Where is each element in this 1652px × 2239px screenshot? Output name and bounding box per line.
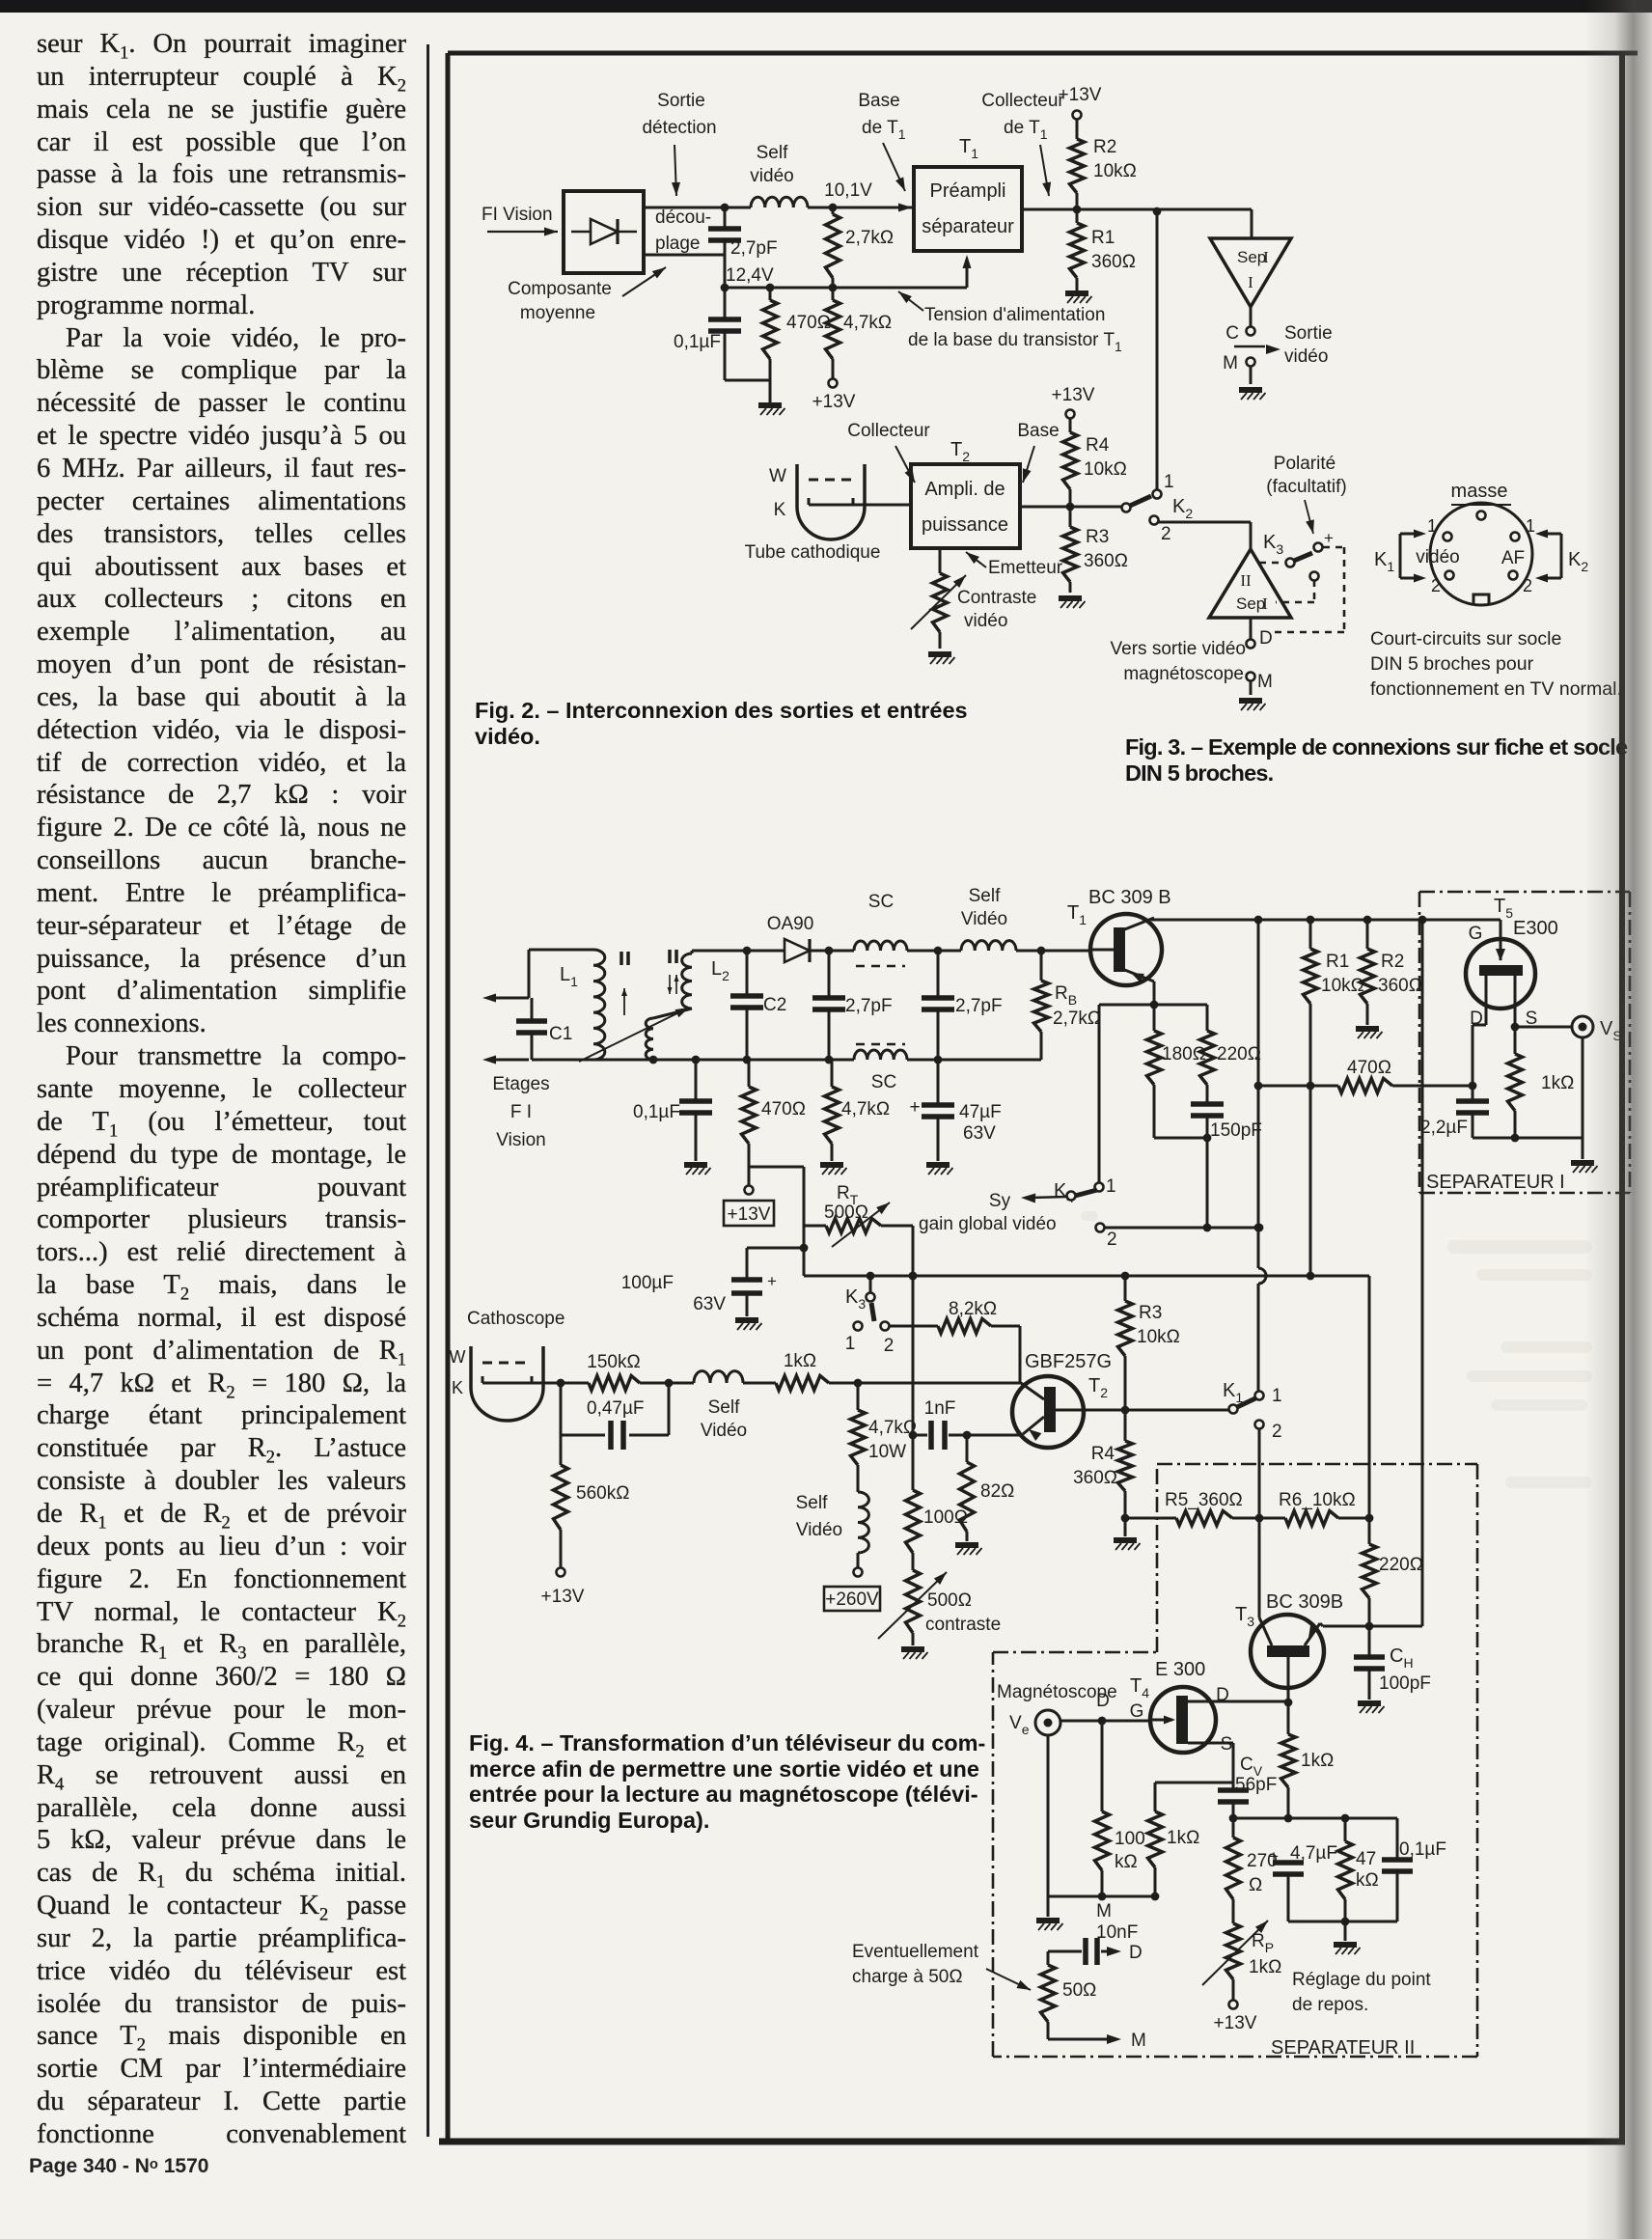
- svg-text:vidéo: vidéo: [1284, 346, 1328, 367]
- svg-text:T5: T5: [1494, 896, 1513, 921]
- svg-text:100: 100: [1115, 1829, 1145, 1849]
- svg-text:M: M: [1096, 1901, 1112, 1921]
- svg-text:D: D: [1216, 1685, 1229, 1705]
- svg-text:de T1: de T1: [1004, 118, 1048, 142]
- svg-text:CH: CH: [1390, 1645, 1414, 1671]
- svg-text:1nF: 1nF: [924, 1398, 956, 1419]
- svg-text:0,1µF: 0,1µF: [633, 1102, 680, 1122]
- svg-text:Ω: Ω: [1249, 1875, 1262, 1895]
- svg-text:M: M: [1131, 2031, 1146, 2051]
- svg-text:2: 2: [1107, 1230, 1117, 1250]
- svg-text:0,1µF: 0,1µF: [674, 332, 721, 352]
- svg-text:2,7kΩ: 2,7kΩ: [845, 228, 894, 248]
- svg-text:1: 1: [1106, 1176, 1116, 1197]
- svg-text:1kΩ: 1kΩ: [1167, 1828, 1199, 1848]
- svg-text:50Ω: 50Ω: [1062, 1980, 1096, 2001]
- svg-text:82Ω: 82Ω: [980, 1481, 1014, 1502]
- svg-text:S: S: [1221, 1734, 1233, 1755]
- svg-text:Sy: Sy: [989, 1191, 1011, 1211]
- svg-text:I: I: [1263, 248, 1269, 266]
- svg-text:SC: SC: [871, 1072, 896, 1092]
- svg-text:Sep: Sep: [1237, 248, 1266, 266]
- svg-text:1: 1: [845, 1334, 856, 1354]
- svg-text:L2: L2: [711, 958, 730, 983]
- svg-text:I: I: [1248, 273, 1253, 291]
- svg-text:de repos.: de repos.: [1292, 1995, 1368, 2015]
- svg-text:Base: Base: [1017, 421, 1059, 441]
- svg-text:K3: K3: [845, 1286, 866, 1312]
- svg-text:180Ω: 180Ω: [1162, 1044, 1206, 1064]
- svg-text:1: 1: [1526, 516, 1535, 536]
- svg-text:1kΩ: 1kΩ: [1541, 1073, 1574, 1093]
- svg-text:500Ω: 500Ω: [824, 1202, 868, 1223]
- svg-text:BC 309 B: BC 309 B: [1088, 887, 1171, 908]
- svg-text:T2: T2: [950, 439, 970, 464]
- svg-text:Self: Self: [708, 1397, 740, 1418]
- svg-text:150pF: 150pF: [1210, 1120, 1262, 1141]
- svg-text:8,2kΩ: 8,2kΩ: [949, 1299, 997, 1319]
- svg-text:Collecteur: Collecteur: [981, 91, 1064, 111]
- svg-text:Ampli. de: Ampli. de: [924, 479, 1005, 500]
- svg-text:10kΩ: 10kΩ: [1093, 161, 1137, 181]
- svg-text:D: D: [1129, 1943, 1143, 1963]
- svg-text:L1: L1: [560, 964, 578, 989]
- svg-text:K2: K2: [1172, 496, 1193, 521]
- svg-text:10nF: 10nF: [1096, 1922, 1138, 1943]
- svg-text:séparateur: séparateur: [922, 216, 1014, 237]
- svg-text:détection: détection: [642, 118, 716, 138]
- svg-text:C: C: [1225, 323, 1239, 344]
- svg-text:1kΩ: 1kΩ: [1249, 1957, 1281, 1977]
- svg-text:FI Vision: FI Vision: [482, 205, 553, 225]
- svg-text:R1: R1: [1326, 952, 1349, 972]
- svg-text:2: 2: [1523, 576, 1532, 595]
- svg-text:Self: Self: [757, 143, 788, 163]
- svg-text:0,1µF: 0,1µF: [1399, 1839, 1446, 1860]
- svg-text:Emetteur: Emetteur: [988, 558, 1063, 578]
- svg-text:contraste: contraste: [925, 1615, 1001, 1635]
- svg-text:DIN 5 broches pour: DIN 5 broches pour: [1370, 653, 1534, 675]
- svg-text:R4: R4: [1091, 1444, 1115, 1464]
- svg-text:Vidéo: Vidéo: [701, 1421, 747, 1441]
- svg-text:D: D: [1259, 628, 1273, 649]
- svg-text:10kΩ: 10kΩ: [1137, 1327, 1180, 1347]
- svg-text:10kΩ: 10kΩ: [1084, 459, 1127, 480]
- svg-text:K1: K1: [1374, 549, 1394, 574]
- svg-text:gain global vidéo: gain global vidéo: [919, 1214, 1057, 1234]
- svg-text:charge à 50Ω: charge à 50Ω: [852, 1967, 963, 1987]
- svg-text:C1: C1: [549, 1024, 572, 1044]
- svg-text:100µF: 100µF: [621, 1273, 674, 1293]
- svg-text:(facultatif): (facultatif): [1266, 477, 1346, 497]
- svg-text:GBF257G: GBF257G: [1025, 1351, 1112, 1372]
- svg-text:de la base du transistor T1: de la base du transistor T1: [908, 330, 1122, 354]
- svg-text:+13V: +13V: [541, 1587, 585, 1607]
- svg-text:4,7kΩ: 4,7kΩ: [843, 313, 892, 333]
- svg-text:1: 1: [1272, 1386, 1282, 1406]
- svg-text:II: II: [1240, 571, 1252, 590]
- svg-text:M: M: [1257, 672, 1273, 692]
- svg-text:Court-circuits sur socle: Court-circuits sur socle: [1370, 628, 1561, 650]
- svg-text:Cathoscope: Cathoscope: [467, 1309, 564, 1329]
- svg-text:D: D: [1096, 1691, 1110, 1711]
- svg-text:SC: SC: [868, 892, 894, 912]
- svg-text:Collecteur: Collecteur: [847, 421, 930, 441]
- svg-text:R4: R4: [1086, 435, 1110, 456]
- svg-text:360Ω: 360Ω: [1073, 1468, 1117, 1488]
- svg-text:2,7pF: 2,7pF: [845, 996, 893, 1016]
- svg-text:+13V: +13V: [728, 1204, 771, 1225]
- svg-text:+: +: [767, 1272, 777, 1290]
- svg-text:W: W: [769, 466, 786, 486]
- svg-text:puissance: puissance: [922, 514, 1008, 536]
- svg-text:décou-: décou-: [655, 207, 711, 228]
- svg-text:220Ω: 220Ω: [1379, 1555, 1423, 1575]
- svg-text:Etages: Etages: [492, 1074, 549, 1094]
- svg-text:I: I: [1262, 594, 1268, 613]
- svg-text:47µF: 47µF: [959, 1102, 1002, 1122]
- svg-text:1kΩ: 1kΩ: [1301, 1751, 1334, 1771]
- svg-text:vidéo: vidéo: [750, 166, 793, 186]
- svg-text:Tension d'alimentation: Tension d'alimentation: [924, 305, 1105, 325]
- svg-text:T4: T4: [1130, 1675, 1149, 1700]
- svg-text:Vidéo: Vidéo: [796, 1520, 842, 1540]
- svg-text:T1: T1: [959, 136, 978, 161]
- svg-text:R6_10kΩ: R6_10kΩ: [1279, 1490, 1356, 1510]
- svg-text:W: W: [450, 1347, 466, 1367]
- svg-text:2: 2: [1431, 576, 1441, 595]
- svg-text:R3: R3: [1086, 527, 1109, 547]
- svg-text:Préampli: Préampli: [930, 180, 1006, 202]
- svg-text:+260V: +260V: [825, 1589, 879, 1610]
- svg-text:360Ω: 360Ω: [1084, 551, 1128, 571]
- svg-text:+: +: [1269, 1847, 1279, 1866]
- svg-text:10W: 10W: [868, 1442, 906, 1462]
- svg-text:BC 309B: BC 309B: [1266, 1591, 1343, 1613]
- svg-text:Composante: Composante: [508, 279, 612, 299]
- svg-text:RP: RP: [1252, 1931, 1274, 1955]
- svg-text:Eventuellement: Eventuellement: [852, 1942, 979, 1962]
- svg-text:360Ω: 360Ω: [1378, 976, 1422, 996]
- svg-text:1: 1: [1164, 472, 1174, 492]
- svg-text:masse: masse: [1451, 481, 1508, 502]
- svg-text:K1: K1: [1223, 1380, 1243, 1405]
- svg-text:Vers sortie vidéo: Vers sortie vidéo: [1111, 639, 1246, 659]
- svg-text:63V: 63V: [963, 1123, 996, 1144]
- svg-text:2,7pF: 2,7pF: [730, 238, 778, 259]
- svg-text:SEPARATEUR I: SEPARATEUR I: [1426, 1172, 1565, 1193]
- svg-text:R2: R2: [1093, 137, 1116, 157]
- svg-text:150kΩ: 150kΩ: [587, 1352, 640, 1372]
- svg-text:K: K: [452, 1378, 463, 1397]
- svg-text:R3: R3: [1139, 1303, 1162, 1323]
- svg-text:220Ω: 220Ω: [1217, 1044, 1261, 1064]
- svg-text:magnétoscope: magnétoscope: [1123, 664, 1244, 684]
- svg-text:Ve: Ve: [1009, 1713, 1030, 1737]
- svg-text:4,7µF: 4,7µF: [1290, 1843, 1337, 1864]
- svg-text:2: 2: [884, 1336, 895, 1356]
- svg-text:plage: plage: [655, 234, 701, 254]
- svg-text:Vision: Vision: [496, 1130, 545, 1150]
- svg-text:10kΩ: 10kΩ: [1321, 976, 1364, 996]
- svg-text:vidéo: vidéo: [1416, 547, 1459, 567]
- svg-text:Base: Base: [858, 91, 899, 111]
- svg-text:Sep: Sep: [1236, 594, 1265, 613]
- svg-text:R5_360Ω: R5_360Ω: [1165, 1490, 1243, 1510]
- svg-text:R1: R1: [1091, 228, 1115, 248]
- svg-text:0,47µF: 0,47µF: [587, 1398, 645, 1419]
- svg-text:+13V: +13V: [1214, 2013, 1257, 2033]
- svg-text:Contraste: Contraste: [957, 588, 1036, 608]
- svg-text:G: G: [1130, 1701, 1144, 1722]
- svg-text:T1: T1: [1067, 902, 1087, 927]
- svg-text:1: 1: [1427, 516, 1437, 536]
- svg-text:47: 47: [1356, 1849, 1376, 1869]
- svg-text:de T1: de T1: [862, 118, 906, 142]
- svg-text:+13V: +13V: [812, 392, 856, 412]
- svg-text:E300: E300: [1513, 918, 1558, 939]
- svg-text:500Ω: 500Ω: [927, 1590, 972, 1611]
- svg-text:kΩ: kΩ: [1356, 1870, 1379, 1891]
- svg-text:kΩ: kΩ: [1115, 1852, 1138, 1872]
- svg-text:2: 2: [1161, 524, 1171, 544]
- svg-text:OA90: OA90: [767, 914, 814, 934]
- svg-text:T3: T3: [1235, 1604, 1254, 1629]
- svg-text:Self: Self: [796, 1493, 828, 1513]
- svg-text:Sortie: Sortie: [1284, 323, 1333, 344]
- svg-text:vidéo: vidéo: [964, 611, 1007, 631]
- svg-text:56pF: 56pF: [1235, 1775, 1277, 1795]
- svg-text:470Ω: 470Ω: [761, 1099, 806, 1119]
- svg-text:R2: R2: [1381, 952, 1404, 972]
- svg-text:12,4V: 12,4V: [726, 265, 774, 286]
- svg-text:2,2µF: 2,2µF: [1420, 1118, 1468, 1138]
- svg-text:470Ω: 470Ω: [1347, 1058, 1391, 1078]
- svg-text:10,1V: 10,1V: [824, 180, 872, 201]
- svg-text:100Ω: 100Ω: [923, 1507, 968, 1528]
- svg-text:2,7pF: 2,7pF: [955, 996, 1003, 1016]
- svg-text:C2: C2: [763, 995, 786, 1015]
- svg-text:+13V: +13V: [1059, 85, 1102, 105]
- svg-text:K: K: [774, 500, 786, 520]
- svg-text:moyenne: moyenne: [520, 303, 595, 323]
- svg-text:2: 2: [1272, 1422, 1282, 1442]
- svg-text:1kΩ: 1kΩ: [784, 1351, 816, 1371]
- svg-text:T2: T2: [1088, 1375, 1108, 1400]
- svg-text:M: M: [1223, 353, 1238, 373]
- svg-text:560kΩ: 560kΩ: [576, 1483, 629, 1504]
- svg-text:F I: F I: [510, 1102, 532, 1122]
- svg-text:2,7kΩ: 2,7kΩ: [1053, 1009, 1101, 1029]
- svg-text:Sortie: Sortie: [657, 91, 705, 111]
- svg-text:Réglage du point: Réglage du point: [1292, 1970, 1431, 1990]
- svg-text:100pF: 100pF: [1379, 1673, 1431, 1694]
- svg-text:AF: AF: [1501, 548, 1525, 568]
- svg-text:G: G: [1469, 924, 1483, 944]
- svg-text:Vidéo: Vidéo: [961, 909, 1007, 929]
- svg-text:Polarité: Polarité: [1274, 454, 1335, 474]
- svg-text:4,7kΩ: 4,7kΩ: [841, 1099, 890, 1119]
- svg-text:63V: 63V: [693, 1294, 726, 1314]
- svg-text:Self: Self: [969, 886, 1001, 906]
- svg-text:RB: RB: [1055, 983, 1077, 1008]
- svg-text:Tube cathodique: Tube cathodique: [745, 542, 881, 563]
- svg-text:+: +: [1324, 529, 1334, 547]
- svg-text:E 300: E 300: [1155, 1659, 1205, 1680]
- svg-text:360Ω: 360Ω: [1091, 252, 1136, 272]
- svg-text:K3: K3: [1263, 532, 1283, 557]
- svg-text:+13V: +13V: [1052, 385, 1095, 405]
- svg-text:+: +: [909, 1097, 920, 1118]
